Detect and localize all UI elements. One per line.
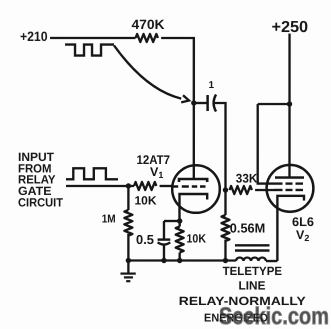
svg-text:1: 1 (209, 80, 215, 91)
svg-text:+250: +250 (272, 19, 309, 36)
svg-text:470K: 470K (132, 17, 165, 32)
svg-text:10K: 10K (186, 232, 206, 246)
svg-text:+210: +210 (20, 29, 48, 44)
svg-text:TELETYPE: TELETYPE (223, 264, 283, 278)
svg-text:6L6: 6L6 (292, 215, 314, 229)
svg-text:33K: 33K (236, 172, 258, 186)
svg-text:0.5: 0.5 (136, 232, 154, 247)
svg-text:1M: 1M (102, 214, 116, 226)
svg-text:0.56M: 0.56M (230, 221, 266, 236)
svg-text:Seekic.com: Seekic.com (219, 303, 329, 329)
svg-text:CIRCUIT: CIRCUIT (18, 195, 64, 209)
svg-text:10K: 10K (134, 194, 156, 208)
svg-text:LINE: LINE (238, 279, 265, 293)
